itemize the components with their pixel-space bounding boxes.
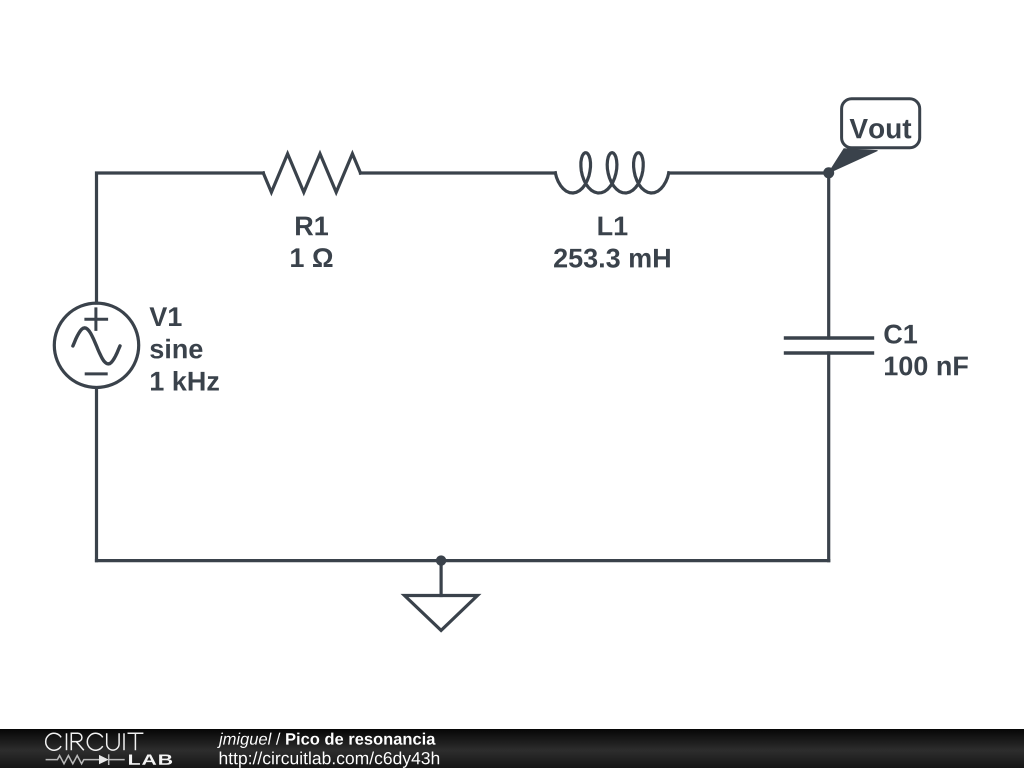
ground stub wire: [440, 561, 443, 596]
label C1 value: [885, 356, 968, 375]
logo LAB text: [129, 754, 172, 764]
wire top-left: V1 top to R1 left: [97, 173, 264, 303]
wire right vertical upper: node to C1: [827, 173, 830, 338]
wire bottom rail: [97, 559, 829, 562]
voltage source V1 circle: [54, 303, 138, 387]
label R1 value: [291, 248, 332, 267]
wire L1 to Vout node: [669, 171, 829, 174]
Vout flag bubble: [842, 99, 920, 148]
node dot Vout: [823, 167, 834, 178]
wire left vertical lower: bottom rail to V1: [95, 388, 98, 561]
Vout flag tail: [829, 149, 878, 173]
capacitor C1 plates: [786, 338, 873, 353]
footer url line: [220, 752, 439, 768]
node dot ground: [436, 555, 446, 565]
logo CIRCUIT letters: [46, 733, 144, 750]
label V1 value: [151, 371, 219, 391]
logo mini resistor-diode wire: [46, 754, 125, 765]
wire R1 to L1: [361, 171, 556, 174]
resistor R1: [263, 154, 360, 192]
V1 sine waveform: [73, 328, 120, 364]
logo diode triangle: [99, 755, 109, 764]
label C1 name: [884, 325, 917, 344]
footer title line: [217, 733, 435, 748]
label L1 value: [554, 249, 670, 268]
ground triangle: [405, 596, 478, 631]
label L1 name: [598, 217, 627, 236]
inductor L1: [555, 153, 669, 193]
footer bar: [0, 729, 1024, 768]
V1 minus sign: [86, 372, 106, 375]
label Vout net name: [850, 119, 912, 139]
label R1 name: [296, 217, 328, 236]
label V1 name: [149, 307, 181, 326]
V1 plus sign: [86, 309, 107, 330]
label V1 type: [150, 339, 202, 359]
wire right vertical lower: C1 to bottom rail: [827, 353, 830, 561]
